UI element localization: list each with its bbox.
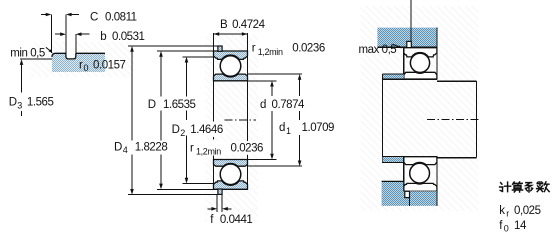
right figure upper inner ring bbox=[404, 72, 437, 79]
svg-text:1.0709: 1.0709 bbox=[302, 122, 335, 134]
svg-text:2: 2 bbox=[180, 128, 185, 138]
D4 dimension line bbox=[130, 46, 134, 195]
shaft upper surface bbox=[383, 78, 437, 80]
groove detail block bbox=[52, 53, 105, 72]
d dimension line bbox=[270, 81, 274, 160]
bearing right face line bbox=[247, 33, 249, 190]
D dimension line bbox=[159, 51, 163, 189]
svg-text:14: 14 bbox=[514, 220, 527, 232]
f dimension arrows bbox=[208, 207, 232, 211]
D4 extension lines bbox=[128, 45, 218, 47]
extension line C left bbox=[50, 15, 52, 53]
backdrop hatch right figure bbox=[361, 6, 479, 211]
svg-text:0: 0 bbox=[84, 63, 89, 73]
svg-text:D: D bbox=[114, 142, 122, 154]
right figure upper bearing faces bbox=[404, 48, 437, 79]
D3 dimension line and arrow bbox=[20, 59, 24, 116]
D extension lines bbox=[157, 50, 214, 52]
housing upper block bbox=[377, 28, 437, 48]
svg-text:0.4724: 0.4724 bbox=[232, 19, 266, 31]
lower snap ring bbox=[405, 191, 410, 197]
upper inner ring bbox=[214, 74, 248, 81]
svg-text:d: d bbox=[260, 99, 266, 111]
housing lower outline bbox=[382, 181, 404, 191]
svg-text:d: d bbox=[279, 122, 285, 134]
max 0,5 leader arrow bbox=[393, 44, 403, 48]
extension line groove right wall bbox=[75, 34, 77, 56]
heading (Chinese) bbox=[500, 182, 550, 192]
backdrop hatch detail figure bbox=[31, 42, 134, 77]
svg-text:1: 1 bbox=[286, 126, 291, 136]
centerline main figure bbox=[224, 119, 256, 121]
svg-text:0.0236: 0.0236 bbox=[292, 42, 325, 54]
right figure upper outer ring bbox=[404, 48, 437, 57]
housing upper right edge bbox=[436, 28, 438, 48]
right figure lower inner ring bbox=[404, 157, 437, 165]
D3 extension line bbox=[20, 58, 52, 60]
shaft right end line bbox=[475, 81, 477, 157]
extension line groove left wall bbox=[65, 15, 67, 57]
svg-text:D: D bbox=[148, 99, 156, 111]
svg-text:D: D bbox=[172, 124, 180, 136]
groove detail block outline bbox=[52, 53, 105, 59]
lower outer ring bbox=[214, 181, 248, 189]
bearing left face line bbox=[213, 33, 215, 190]
shaft shoulder lower outline bbox=[383, 162, 404, 164]
svg-text:1,2min: 1,2min bbox=[196, 147, 221, 157]
svg-text:min 0,5: min 0,5 bbox=[10, 47, 45, 59]
svg-text:0.0811: 0.0811 bbox=[105, 11, 137, 23]
svg-text:B: B bbox=[220, 19, 228, 31]
housing upper bore line bbox=[377, 46, 437, 48]
svg-text:k: k bbox=[499, 205, 505, 217]
groove channel white backdrop bbox=[66, 15, 75, 59]
shaft shoulder upper bbox=[383, 74, 404, 79]
svg-text:0.0531: 0.0531 bbox=[112, 31, 145, 43]
label background patches bbox=[189, 43, 287, 225]
right figure lower bearing faces bbox=[404, 157, 437, 192]
svg-text:max 0,5: max 0,5 bbox=[359, 44, 397, 56]
right figure lower ball bbox=[410, 163, 430, 183]
snap ring bbox=[407, 41, 412, 49]
dimension b arrows bbox=[55, 32, 90, 36]
min 0,5 leader arrow bbox=[46, 47, 53, 52]
svg-text:0: 0 bbox=[504, 223, 509, 233]
f extension lines bbox=[216, 195, 218, 212]
lower ball bbox=[220, 164, 241, 185]
svg-text:0.0236: 0.0236 bbox=[231, 142, 264, 154]
shaft shoulder upper outline bbox=[383, 73, 404, 75]
svg-text:0.7874: 0.7874 bbox=[272, 99, 306, 111]
upper ball bbox=[220, 56, 241, 77]
svg-text:0.0157: 0.0157 bbox=[93, 59, 126, 71]
lower snap ring groove tab bbox=[218, 189, 222, 194]
lower groove projection line bbox=[408, 197, 410, 206]
d extension lines bbox=[248, 80, 277, 82]
svg-text:0.0441: 0.0441 bbox=[220, 214, 253, 226]
svg-text:f: f bbox=[499, 220, 503, 232]
svg-text:1.4646: 1.4646 bbox=[190, 124, 223, 136]
centerline right figure bbox=[427, 118, 479, 120]
svg-text:1,2min: 1,2min bbox=[258, 47, 283, 57]
housing lower right edge bbox=[436, 191, 438, 206]
d1 dimension line bbox=[298, 74, 302, 166]
svg-text:1.8228: 1.8228 bbox=[135, 142, 168, 154]
lower inner ring bbox=[214, 160, 248, 167]
shaft lower surface bbox=[383, 156, 437, 158]
svg-text:3: 3 bbox=[17, 100, 22, 110]
svg-text:1.6535: 1.6535 bbox=[163, 99, 196, 111]
shaft shoulder lower bbox=[383, 157, 404, 162]
dimension C arrows bbox=[41, 13, 79, 17]
svg-text:D: D bbox=[9, 97, 17, 109]
right figure lower outer ring bbox=[404, 183, 437, 191]
backdrop hatch main figure bbox=[205, 34, 258, 222]
D2 extension lines bbox=[183, 56, 214, 58]
D2 dimension line bbox=[185, 57, 189, 184]
svg-text:C: C bbox=[90, 11, 98, 23]
svg-text:b: b bbox=[100, 31, 106, 43]
housing lower block bbox=[382, 181, 437, 206]
upper snap ring groove tab bbox=[218, 46, 222, 51]
svg-text:r: r bbox=[506, 209, 509, 219]
svg-text:0,025: 0,025 bbox=[514, 205, 541, 217]
groove projection line to image top bbox=[410, 0, 412, 41]
upper outer ring bbox=[214, 51, 248, 59]
svg-text:1.565: 1.565 bbox=[27, 97, 54, 109]
dimension B line and arrows bbox=[214, 32, 248, 36]
shaft left end line bbox=[382, 74, 384, 163]
right figure upper ball bbox=[410, 53, 429, 72]
svg-text:4: 4 bbox=[123, 145, 128, 155]
d1 extension lines bbox=[248, 73, 303, 75]
